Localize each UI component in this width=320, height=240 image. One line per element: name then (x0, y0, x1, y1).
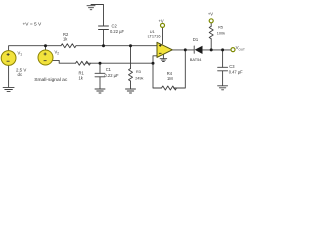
svg-text:D1: D1 (193, 37, 199, 42)
svg-text:C3: C3 (229, 64, 235, 69)
svg-text:+V = 5 V: +V = 5 V (23, 21, 42, 27)
svg-text:C1: C1 (106, 67, 112, 72)
svg-text:LT1716: LT1716 (148, 33, 161, 38)
svg-text:C2: C2 (112, 24, 118, 29)
svg-text:+V: +V (208, 12, 213, 17)
svg-text:dc: dc (18, 72, 23, 77)
svg-text:1M: 1M (167, 76, 173, 81)
svg-text:0.22 µF: 0.22 µF (110, 29, 124, 34)
svg-text:Small-signal ac: Small-signal ac (34, 77, 68, 83)
svg-text:249k: 249k (135, 76, 143, 80)
svg-text:R5: R5 (218, 26, 223, 30)
svg-text:R3: R3 (136, 70, 141, 74)
svg-text:100k: 100k (217, 31, 225, 35)
svg-text:0.47 µF: 0.47 µF (229, 70, 243, 75)
svg-text:+V: +V (159, 18, 164, 23)
svg-text:R4: R4 (167, 71, 173, 76)
svg-text:0.22 µF: 0.22 µF (105, 73, 119, 78)
svg-text:BAT54: BAT54 (190, 57, 202, 62)
